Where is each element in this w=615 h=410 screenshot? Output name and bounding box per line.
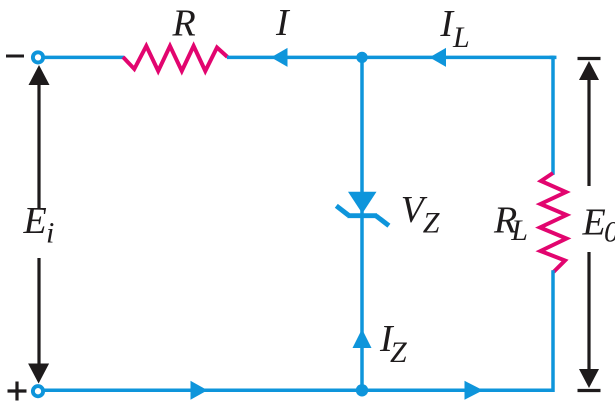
- svg-text:L: L: [452, 21, 470, 54]
- current arrow IZ: [353, 329, 372, 348]
- svg-text:L: L: [510, 214, 528, 247]
- svg-text:0: 0: [604, 216, 615, 249]
- svg-text:Z: Z: [390, 336, 407, 369]
- node top junction: [356, 52, 367, 63]
- zener diode VZ: [335, 192, 391, 228]
- current arrow I: [271, 48, 288, 67]
- wire top-left segment: [44, 56, 124, 60]
- svg-text:R: R: [172, 3, 196, 45]
- wire middle vertical: [360, 57, 364, 390]
- wire right vertical upper: [551, 57, 555, 173]
- svg-text:I: I: [275, 2, 291, 44]
- current arrow bottom-left: [191, 381, 208, 400]
- terminal minus: [33, 52, 43, 62]
- svg-text:i: i: [46, 217, 54, 250]
- svg-text:E: E: [23, 200, 47, 242]
- svg-text:E: E: [582, 202, 606, 244]
- node bottom junction: [356, 384, 368, 396]
- polarity plus: [8, 382, 27, 401]
- wire top-right corner: [551, 56, 554, 60]
- current arrow IL: [430, 48, 447, 67]
- wire right vertical lower: [551, 272, 555, 390]
- voltage arrow Ei: [28, 65, 49, 384]
- resistor RL: [540, 173, 567, 272]
- resistor R: [123, 46, 228, 71]
- dimension arrow E0: [578, 59, 601, 391]
- wire bottom: [44, 389, 553, 393]
- wire top-middle segment: [227, 56, 362, 60]
- svg-text:Z: Z: [423, 207, 440, 240]
- current arrow bottom-right: [465, 381, 484, 400]
- terminal plus: [33, 386, 43, 396]
- wire top-right segment: [362, 56, 553, 60]
- polarity minus: [6, 55, 24, 58]
